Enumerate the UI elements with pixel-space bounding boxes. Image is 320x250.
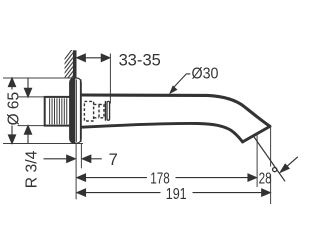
threaded pipe body <box>45 97 71 126</box>
ext line 33-35 <box>109 54 111 104</box>
spout top edge <box>82 95 270 126</box>
svg-text:28: 28 <box>259 170 272 187</box>
dim O65 ext top <box>3 77 74 79</box>
O30 leader <box>172 74 191 90</box>
dim 191 <box>77 189 270 196</box>
ext1 178 <box>256 133 258 187</box>
ext lines pipe <box>18 96 45 98</box>
svg-text:Ø30: Ø30 <box>192 65 219 82</box>
dim O65 line + arrows <box>8 78 15 144</box>
spout bottom edge <box>82 123 243 141</box>
wall face ext line <box>75 144 77 200</box>
svg-text:33-35: 33-35 <box>119 51 161 69</box>
aux dim R3/4 arrows <box>24 78 31 144</box>
svg-text:7: 7 <box>109 151 118 169</box>
svg-text:R 3/4: R 3/4 <box>24 151 41 189</box>
dim 178 <box>77 174 257 181</box>
spout outlet face <box>243 126 270 141</box>
dim O65 ext bottom <box>3 143 83 145</box>
svg-text:191: 191 <box>166 186 187 203</box>
dim 33-35 line <box>77 54 110 61</box>
dim 7 <box>44 155 102 162</box>
28 deg diagonal <box>253 136 285 181</box>
28 deg pointer arrow <box>287 157 298 167</box>
wall bar <box>73 50 77 78</box>
flange escutcheon <box>70 78 82 143</box>
wall hatching <box>62 44 76 104</box>
hidden internals dashed <box>84 101 104 121</box>
ext2 191 <box>270 128 272 167</box>
